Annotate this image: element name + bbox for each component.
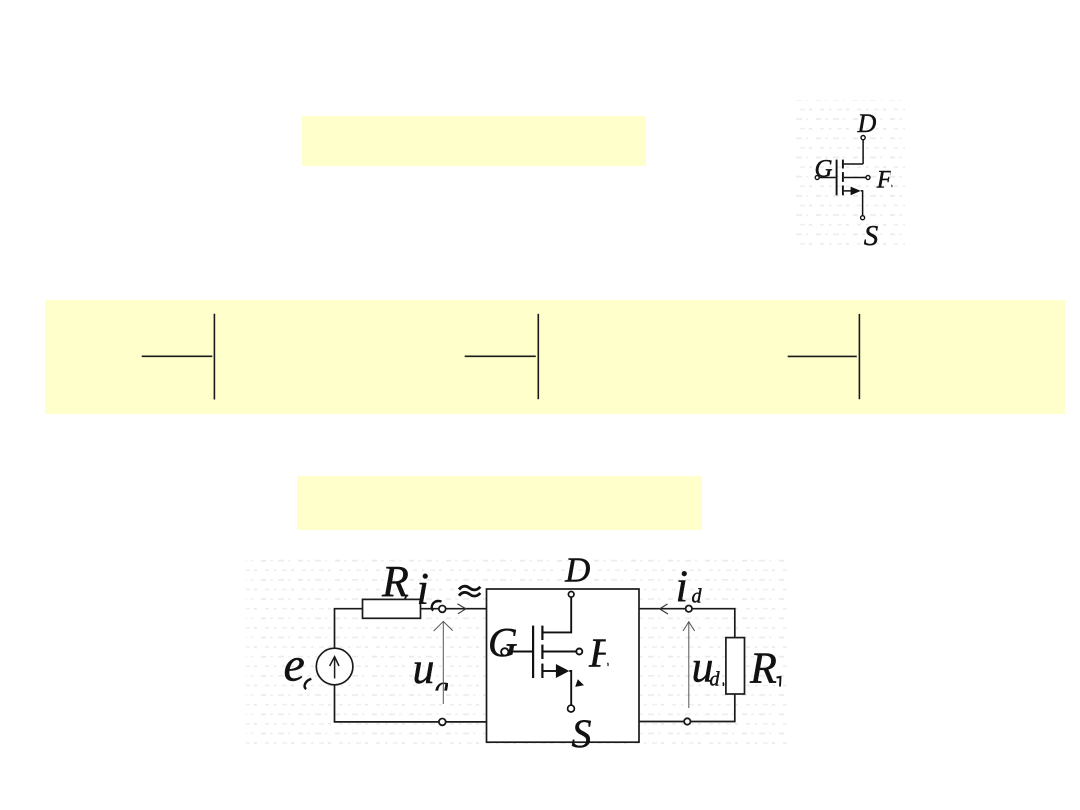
label e subscript (clipped s) — [305, 679, 312, 689]
small current arrowhead — [575, 679, 584, 687]
wire gate lead — [819, 177, 835, 179]
wire top left — [334, 608, 363, 610]
amplifier box U1 — [487, 589, 640, 742]
node terminal circle input bottom — [439, 719, 446, 726]
open arrowhead right on input wire — [458, 604, 466, 614]
svg-text:D: D — [564, 551, 590, 590]
terminal B circle — [866, 176, 870, 180]
wire node to box bottom — [446, 721, 487, 723]
wire bottom right — [639, 721, 735, 723]
highlight band — [45, 300, 1065, 414]
wire bottom left — [334, 721, 439, 723]
terminal S circle — [861, 216, 865, 220]
wire gate lead (box) — [509, 651, 533, 653]
gate plate — [836, 160, 838, 196]
svg-text:F: F — [876, 166, 893, 193]
svg-text:d: d — [692, 585, 703, 607]
source circle E1 — [316, 648, 353, 685]
output voltage arrow — [683, 622, 695, 708]
wire body lead — [844, 177, 866, 179]
label R load subscript (clipped L) — [777, 677, 781, 687]
highlight box 1 — [302, 116, 646, 166]
wire resistor to node — [421, 608, 439, 610]
node terminal circle input top — [439, 606, 446, 613]
svg-text:G: G — [488, 619, 518, 665]
open arrowhead left on output wire — [660, 604, 668, 614]
terminal D circle — [861, 136, 865, 140]
resistor R1 body — [363, 599, 421, 618]
bullet symbol 2 — [465, 314, 539, 399]
wire body lead (box) — [544, 651, 576, 653]
terminal G circle — [815, 176, 819, 180]
wire left vertical bottom — [334, 685, 336, 722]
approx symbol — [459, 586, 480, 596]
terminal G circle (box) — [501, 648, 508, 655]
wire right vertical top — [734, 608, 736, 638]
svg-text:u: u — [413, 644, 435, 693]
highlight box 2 — [297, 476, 702, 530]
terminal B circle (box) — [576, 649, 582, 655]
gate plate (box) — [532, 626, 534, 678]
bullet symbol 1 — [142, 314, 215, 400]
input voltage arrow — [434, 621, 453, 704]
svg-text:i: i — [676, 562, 689, 612]
wire source lead (box) with arrow — [544, 670, 558, 672]
svg-text:R: R — [749, 644, 777, 693]
svg-text:D: D — [857, 109, 877, 138]
load resistor RL body — [726, 638, 745, 694]
svg-text:S: S — [572, 711, 592, 756]
label u subscript g (clipped) — [435, 671, 450, 703]
svg-text:S: S — [864, 220, 879, 252]
node terminal circle output bottom — [684, 718, 690, 724]
label B (box body, clipped) — [588, 630, 615, 676]
wire source bend — [861, 191, 863, 216]
wire drain — [862, 140, 864, 164]
svg-text:e: e — [284, 638, 305, 691]
terminal S circle (box) — [568, 705, 575, 712]
wire right vertical bottom — [734, 694, 736, 722]
channel dashes — [842, 160, 844, 196]
label B (Q1 body, clipped) — [876, 166, 893, 193]
wire left vertical top — [334, 609, 336, 649]
node terminal circle output top — [686, 606, 692, 612]
source arrow — [330, 657, 339, 679]
wire source bend (box) — [569, 671, 571, 705]
svg-text:i: i — [417, 564, 430, 614]
terminal D circle (box) — [568, 592, 574, 598]
wire top right — [639, 608, 735, 610]
bullet symbol 3 — [788, 314, 860, 399]
label i subscript g (clipped) — [432, 601, 442, 611]
wire source lead with arrow — [844, 190, 852, 192]
wire drain bar — [843, 163, 863, 165]
svg-text:d: d — [710, 669, 721, 691]
label R subscript mark — [404, 596, 407, 603]
channel dashes (box) — [541, 626, 543, 678]
wire node to box — [446, 608, 487, 610]
wire drain (box) — [544, 597, 572, 632]
